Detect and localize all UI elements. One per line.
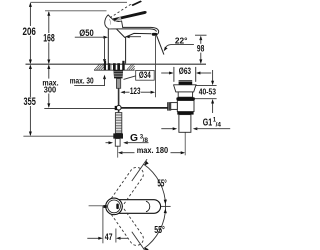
- water stream line 22deg: [157, 36, 164, 55]
- drain flange cup: [173, 85, 196, 92]
- radial legs 55deg: [132, 159, 147, 181]
- drain bottom band: [177, 112, 193, 115]
- plan body outer circle: [106, 198, 123, 215]
- plan view axis line: [89, 205, 104, 207]
- braided hose: [115, 113, 121, 134]
- open lever dashed: [110, 4, 132, 18]
- dimension 206: [29, 3, 31, 63]
- svg-text:Ø50: Ø50: [79, 28, 93, 38]
- svg-text:Ø63: Ø63: [179, 66, 191, 76]
- drain tailpiece: [179, 115, 191, 133]
- dimension 355: [29, 66, 31, 136]
- svg-text:max. 30: max. 30: [70, 75, 94, 85]
- spout outlet projection line: [155, 36, 157, 97]
- svg-text:123: 123: [130, 86, 141, 96]
- dashed petal up: [111, 167, 143, 245]
- hose end stub: [115, 139, 120, 147]
- top reference line: [31, 1, 128, 3]
- svg-text:55°: 55°: [157, 179, 166, 190]
- Ø50 opposite arrow: [128, 36, 141, 38]
- drain flange ext lines: [173, 67, 175, 82]
- drain side port: [170, 103, 177, 110]
- svg-text:55°: 55°: [154, 225, 165, 236]
- svg-text:47: 47: [105, 232, 113, 243]
- svg-text:300: 300: [44, 84, 57, 94]
- pop-up rod horizontal: [121, 107, 168, 109]
- dimension Ø63: [173, 67, 175, 82]
- mounting washers in hole: [104, 63, 106, 70]
- spout outlet: [152, 33, 157, 36]
- svg-text:22°: 22°: [175, 36, 188, 45]
- max300 bottom reference line: [44, 108, 117, 110]
- rod ball joint: [115, 106, 118, 110]
- faucet body outline: [108, 27, 158, 63]
- svg-text:355: 355: [24, 96, 36, 108]
- swing arc with arrows: [144, 164, 166, 206]
- hose nut G3/8: [113, 133, 123, 138]
- drain lip dark band: [176, 97, 195, 100]
- label Ø34 in box with leader: [136, 70, 155, 80]
- drain neck: [178, 92, 192, 97]
- plan body inner circle: [108, 200, 121, 213]
- threaded shank and mounting nut: [113, 70, 123, 78]
- plan lever inner tip arc: [146, 201, 150, 212]
- svg-text:Ø34: Ø34: [139, 70, 151, 80]
- 355 bottom reference line: [23, 135, 114, 137]
- svg-text:168: 168: [43, 32, 55, 44]
- drain plug: [179, 80, 193, 82]
- svg-text:/8: /8: [143, 137, 149, 144]
- hose centerline: [117, 146, 119, 157]
- dimension max. 180: [118, 151, 123, 154]
- dimension 123: [120, 91, 125, 94]
- hose connector: [116, 79, 120, 89]
- svg-text:G: G: [130, 133, 138, 144]
- drain body: [177, 101, 194, 112]
- arc arrowheads: [144, 161, 148, 166]
- deck hatch band bottom edge: [94, 69, 135, 71]
- svg-text:/4: /4: [216, 121, 222, 128]
- dimension 40-53: [196, 85, 217, 87]
- label G 3/8 with arrows: [106, 142, 111, 144]
- pop-up rod vertical: [118, 88, 120, 112]
- lever neck: [105, 15, 123, 29]
- plan lever stadium: [107, 200, 161, 214]
- dimension 168: [48, 12, 50, 63]
- svg-text:206: 206: [23, 26, 36, 38]
- plan left tab: [103, 205, 106, 208]
- svg-text:max. 180: max. 180: [137, 145, 169, 155]
- dimension max.300: [48, 66, 50, 107]
- horizontal zero leg: [161, 205, 171, 207]
- closed-lever reference line: [45, 10, 107, 12]
- escutcheon feet: [104, 61, 106, 64]
- label G 1 1/4 with arrows: [161, 128, 174, 130]
- lever blade: [113, 11, 147, 21]
- drain centerline: [184, 115, 186, 155]
- dimension 98: [195, 34, 207, 36]
- dimension 47: [102, 206, 104, 244]
- svg-text:98: 98: [197, 43, 204, 53]
- plan lever pin: [116, 204, 119, 210]
- deck hatch left: [94, 64, 135, 70]
- svg-text:G1: G1: [203, 118, 213, 129]
- svg-text:40-53: 40-53: [199, 87, 216, 97]
- countertop deck line: [26, 63, 207, 65]
